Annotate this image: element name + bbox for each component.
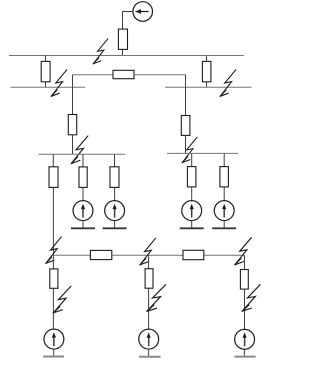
fault bolt F9 on bottom-left feeder xyxy=(53,286,71,313)
wire bus B3R to R11 xyxy=(223,153,225,166)
generator G3 (motor/source circle) xyxy=(182,201,202,221)
generator G4 (motor/source circle) xyxy=(214,201,234,221)
wire tie2 corner down to R16 xyxy=(244,255,246,269)
wire bus B1 to R3 xyxy=(206,56,208,62)
resistor R11 xyxy=(220,167,229,187)
bus B3L (third bus, left section) xyxy=(39,153,126,155)
resistor R8 xyxy=(79,167,87,188)
bus B3R (third bus, right section) xyxy=(167,152,238,154)
wire G3 to terminal bar xyxy=(191,221,193,229)
resistor R6 (right feeder) xyxy=(181,116,190,136)
fault bolt F4 on left feeder xyxy=(71,136,88,164)
wire from S1 to R1 xyxy=(123,11,133,13)
wire G7 to terminal bar xyxy=(243,349,245,356)
terminal bar under G6 xyxy=(139,356,161,358)
resistor R4 (tie-line reactor) xyxy=(113,70,134,78)
wire R15 to G6 xyxy=(148,288,150,329)
wire R3 to bus B2R xyxy=(206,82,208,87)
resistor R14 (bottom-left) xyxy=(50,269,58,288)
wire R10 to G3 xyxy=(191,187,193,201)
wire G6 to terminal bar xyxy=(148,349,150,357)
wire G1 to terminal bar xyxy=(82,221,84,229)
wire bus B3L to R7 xyxy=(52,154,54,167)
wire tie2 to R15 xyxy=(148,255,150,269)
bus B2R (second bus, right section) xyxy=(165,86,252,88)
wire R9 to G2 xyxy=(114,187,116,200)
resistor R7 (long feeder impedance) xyxy=(49,167,58,188)
fault bolt F3 on bus B2R xyxy=(220,70,236,97)
generator G5 (bottom-left source) xyxy=(44,329,64,349)
wire R6 to bus B3R xyxy=(185,135,187,153)
fault bolt F8 at tie-line 2 right corner xyxy=(235,238,252,265)
fault bolt F10 on bottom-middle feeder xyxy=(147,285,166,312)
wire bus B2R to R6 xyxy=(185,87,187,115)
bus B1 (top bus) xyxy=(9,55,244,57)
wire R5 to bus B3L xyxy=(72,135,74,155)
resistor R10 xyxy=(187,167,196,187)
resistor R13 (tie reactor right) xyxy=(183,250,204,259)
resistor R1 (source impedance) xyxy=(118,29,127,49)
generator G2 (motor/source circle) xyxy=(105,201,125,221)
terminal bar under G7 xyxy=(235,356,256,358)
fault bolt F11 on bottom-right feeder xyxy=(242,285,260,312)
wire R8 to G1 xyxy=(82,187,84,200)
generator G7 (bottom-right source) xyxy=(235,329,255,349)
tie-line 2 right segment xyxy=(204,254,245,256)
terminal bar under G2 xyxy=(103,227,127,229)
terminal bar under G3 xyxy=(180,227,204,229)
fault bolt F2 on bus B2L xyxy=(51,70,67,97)
source S1 (top generator circle with left arrow) xyxy=(133,2,153,22)
wire bus B2L to R5 xyxy=(72,87,74,114)
resistor R15 (bottom-middle) xyxy=(145,269,153,289)
fault bolt F1 on bus B1 xyxy=(93,39,108,64)
resistor R9 xyxy=(110,167,119,188)
wire G2 to terminal bar xyxy=(114,221,116,229)
wire R7 down to tie-line 2 xyxy=(52,187,54,255)
resistor R12 (tie reactor left) xyxy=(90,250,111,259)
generator G6 (bottom-middle source) xyxy=(139,329,159,349)
tie-line 2 middle segment xyxy=(112,254,183,256)
resistor R3 (right transformer) xyxy=(202,61,211,81)
resistor R5 (left feeder) xyxy=(68,115,76,135)
wire bus B1 to R2 xyxy=(45,56,47,62)
wire R16 to G7 xyxy=(244,289,246,329)
wire G4 to terminal bar xyxy=(223,221,225,229)
wire bus B3L to R9 xyxy=(114,154,116,167)
bus B2L (second bus, left section) xyxy=(11,86,86,88)
tie-line 2 left segment xyxy=(53,254,90,256)
resistor R2 (left transformer) xyxy=(41,61,50,81)
wire tie-line left segment xyxy=(73,74,114,76)
wire bus B3L to R8 xyxy=(82,154,84,167)
resistor R16 (bottom-right) xyxy=(240,270,248,290)
wire tie2 to R14 xyxy=(52,255,54,269)
terminal bar under G1 xyxy=(71,227,95,229)
wire tie-line right segment xyxy=(134,74,186,76)
fault bolt F6 on left feeder at tie xyxy=(46,237,62,264)
fault bolt F7 on tie-line 2 middle xyxy=(140,238,156,265)
generator G1 (motor/source circle) xyxy=(73,201,93,221)
wire G5 to terminal bar xyxy=(53,349,55,356)
wire R1 to bus B1 xyxy=(122,49,124,55)
fault bolt F5 on right feeder xyxy=(182,137,197,162)
wire bus B3R to R10 xyxy=(191,153,193,166)
wire R2 to bus B2L xyxy=(45,82,47,87)
terminal bar under G5 xyxy=(43,356,64,358)
terminal bar under G4 xyxy=(212,227,236,229)
wire R14 to G5 xyxy=(52,288,54,329)
wire R11 to G4 xyxy=(223,187,225,201)
